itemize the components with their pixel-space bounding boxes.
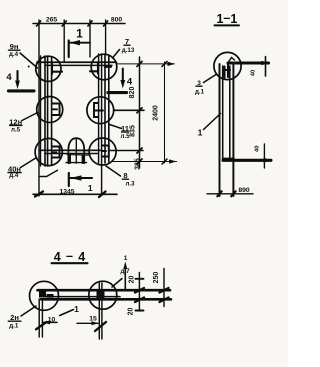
leader 1 под балкой <box>60 310 74 316</box>
circle callout bottom-right <box>89 138 116 165</box>
member web line 4-4 <box>46 296 120 298</box>
section marker 1 top: arrow shaft <box>70 42 91 44</box>
total bold tick member bottom 4-4 <box>160 298 169 303</box>
svg-text:890: 890 <box>238 187 250 194</box>
arch horizontal line 1 <box>66 149 90 151</box>
svg-text:д.7: д.7 <box>120 268 130 275</box>
chain tick bottom 4-4 <box>136 310 144 312</box>
member outer left line <box>219 64 221 196</box>
vertical bar 4-4 right b <box>101 283 103 339</box>
right rail line 4 <box>108 55 110 162</box>
tick 1345 right <box>99 192 106 198</box>
leader д.7 <box>112 279 122 288</box>
svg-text:250: 250 <box>153 272 160 284</box>
svg-text:д.4: д.4 <box>9 172 19 179</box>
leader 40н <box>21 158 37 168</box>
svg-text:1: 1 <box>124 255 128 262</box>
top arm arrowhead <box>262 61 269 65</box>
arrowhead bottom extension <box>169 159 177 163</box>
tick 890 left <box>217 191 221 196</box>
bold tick 15 <box>95 322 106 331</box>
svg-text:4: 4 <box>127 77 133 88</box>
circle callout section 1-1 <box>214 52 241 79</box>
bold tick 10 <box>36 322 47 329</box>
dimension line top <box>33 23 125 25</box>
chain tick y161.5 <box>137 159 142 164</box>
arch base line <box>66 162 87 164</box>
svg-text:д.1: д.1 <box>195 89 205 96</box>
lower arm arrowhead <box>264 158 272 163</box>
arch horizontal line 2 <box>67 154 89 157</box>
svg-text:20: 20 <box>128 276 135 284</box>
bracket mid-right <box>94 103 103 117</box>
svg-text:265: 265 <box>46 17 58 24</box>
underline 12н <box>10 124 22 126</box>
left rail line 1 <box>40 56 42 166</box>
bracket top-right joint <box>90 62 111 73</box>
svg-text:2400: 2400 <box>152 105 159 121</box>
svg-text:1: 1 <box>74 304 79 314</box>
svg-text:1345: 1345 <box>59 188 74 195</box>
left rail line 4 <box>51 57 53 165</box>
lower arm tick <box>263 144 265 168</box>
top beam extension to total dim <box>117 63 175 65</box>
section marker 1 top: arrowhead <box>70 40 81 45</box>
svg-text:4: 4 <box>6 72 12 83</box>
extension line 800 right <box>105 20 107 55</box>
svg-text:л.5: л.5 <box>11 126 21 133</box>
bracket bottom-right <box>102 146 109 157</box>
svg-text:385: 385 <box>135 158 142 170</box>
leader 3 <box>204 75 217 83</box>
member inner right line <box>229 66 231 160</box>
circle callout mid-left <box>37 97 63 123</box>
tick top dim a <box>37 21 41 26</box>
svg-text:1: 1 <box>76 27 83 41</box>
leader 9н <box>20 53 38 68</box>
chain bold tick member bottom <box>135 298 144 303</box>
right rail line 3 <box>104 54 106 163</box>
weld block 4-4 left <box>39 292 54 298</box>
arrowhead on top extension <box>168 62 176 66</box>
section marker 1 bottom: bar <box>68 173 70 186</box>
lower arm second line <box>223 157 234 159</box>
underline 7 <box>124 44 130 46</box>
section marker 4 right: bar <box>108 91 127 94</box>
circle callout 4-4 left <box>30 281 59 310</box>
underline 11 <box>122 131 129 133</box>
circle callout top-right <box>91 54 117 80</box>
svg-text:1: 1 <box>198 128 203 138</box>
svg-text:10: 10 <box>48 316 56 323</box>
circle callout mid-right <box>87 97 114 124</box>
total bold tick member top 4-4 <box>160 288 169 293</box>
section marker 4 left: bar <box>9 89 35 92</box>
svg-text:40: 40 <box>251 70 257 76</box>
arch detail outer <box>68 138 84 163</box>
bracket top-left joint <box>52 62 62 74</box>
underline 9н <box>9 49 20 51</box>
circle callout 4-4 right <box>89 281 117 309</box>
circle callout top-left <box>36 56 61 81</box>
underline 40н <box>8 172 21 174</box>
extension from mid-right circle to chain dim <box>114 109 144 111</box>
extension line 265 right <box>63 20 65 62</box>
chain dimension line right <box>139 57 141 168</box>
total dimension line right <box>164 62 166 163</box>
dim arrow 10 <box>44 321 58 323</box>
svg-text:д.13: д.13 <box>122 47 135 54</box>
section marker 1 top: bar <box>68 41 70 58</box>
arch center line <box>75 140 77 164</box>
weld block 4-4 right <box>97 291 105 300</box>
section marker 4 left: arrow shaft <box>16 71 18 84</box>
dim line 15 <box>77 322 98 324</box>
member inner left line <box>222 66 224 160</box>
leader 11 <box>110 125 122 129</box>
tick top dim d <box>104 21 108 26</box>
svg-text:1: 1 <box>88 183 93 193</box>
joint detail in circle 1-1 <box>225 63 231 78</box>
svg-text:800: 800 <box>111 17 123 24</box>
section marker 1 bottom: arrowhead <box>70 175 82 180</box>
right rail line 1 <box>98 54 100 163</box>
left rail line 3 <box>47 56 49 166</box>
tick top dim b <box>62 21 66 26</box>
arrowhead 10 <box>43 320 50 324</box>
right rail line 2 <box>101 54 103 194</box>
chain bold tick member top <box>135 288 144 293</box>
leader 12н <box>22 113 38 121</box>
tick top dim c <box>88 21 92 26</box>
total dim line 4-4 <box>163 269 165 307</box>
top arm tick <box>265 57 267 77</box>
leader 2н <box>21 306 36 316</box>
chain tick y150.5 <box>137 148 142 153</box>
top arm thick line <box>228 61 269 64</box>
member outer right line <box>232 64 234 196</box>
extension from bottom beam to chain dim <box>110 150 143 152</box>
leader 8 <box>106 166 121 176</box>
bottom dim line 890 <box>207 193 253 195</box>
chain tick y64 <box>137 61 142 66</box>
extension line left long (to 1345) <box>38 20 40 196</box>
top beam line 1 <box>37 61 117 63</box>
chain dim line 4-4 <box>138 273 140 312</box>
chain tick y110 <box>137 108 142 113</box>
circle callout bottom-left <box>35 138 62 165</box>
weld arrow 1 head <box>123 262 127 270</box>
title 4-4 underline <box>52 262 88 264</box>
section marker 4 left: arrowhead <box>15 81 20 90</box>
svg-text:820: 820 <box>129 87 136 99</box>
svg-text:л.3: л.3 <box>125 181 135 188</box>
bracket bottom-left <box>52 147 60 158</box>
title 1-1 underline <box>215 24 240 26</box>
dot on leader 9н <box>28 66 30 68</box>
section marker 4 right: arrowhead <box>120 80 125 89</box>
extension line 800 left <box>89 20 91 57</box>
underline 8 <box>123 178 129 180</box>
svg-text:835: 835 <box>130 125 137 137</box>
svg-text:4: 4 <box>54 250 61 264</box>
member bottom line 4-4 <box>41 298 171 301</box>
vertical bar 4-4 right a <box>98 283 100 339</box>
section marker 4 right: arrow shaft <box>122 69 124 84</box>
lower arm thick line <box>223 159 271 162</box>
bracket mid-left <box>52 104 59 116</box>
arch leg left <box>69 156 71 164</box>
leader 1 member <box>204 114 221 130</box>
drop line 4-4 left a <box>38 299 40 337</box>
leader 7 <box>113 50 120 59</box>
svg-text:д.1: д.1 <box>9 323 19 330</box>
svg-text:40: 40 <box>255 146 261 152</box>
chain tick top 4-4 <box>136 278 144 280</box>
tick 890 right <box>231 191 235 196</box>
bottom dimension line 1345 <box>33 193 117 195</box>
svg-text:15: 15 <box>89 316 97 323</box>
weld flag 1-1 <box>229 58 235 63</box>
left rail line 2 <box>44 56 46 166</box>
arrowhead 15 <box>92 321 99 325</box>
extension bottom to total dim <box>112 161 177 163</box>
bottom beam line 2 <box>45 153 98 155</box>
tick 1345 left <box>35 192 43 197</box>
underline 3 <box>196 85 202 87</box>
arch leg right <box>82 156 84 164</box>
svg-text:1: 1 <box>230 12 237 26</box>
svg-text:д.4: д.4 <box>9 51 19 58</box>
underline 2н <box>8 320 20 322</box>
top beam line 2 <box>45 64 112 66</box>
total tick bottom <box>162 159 167 164</box>
svg-text:4: 4 <box>78 250 85 264</box>
section marker 1 bottom: arrow shaft <box>70 177 92 179</box>
member top line 4-4 <box>38 289 171 292</box>
bottom beam line 1 <box>40 149 102 151</box>
total tick top <box>162 61 167 66</box>
svg-text:20: 20 <box>128 308 135 316</box>
drop line 4-4 left b <box>41 299 43 337</box>
svg-text:–: – <box>66 249 73 263</box>
weld arrow 1 (up) shaft <box>124 266 126 290</box>
hook line near bottom beam <box>39 170 58 176</box>
